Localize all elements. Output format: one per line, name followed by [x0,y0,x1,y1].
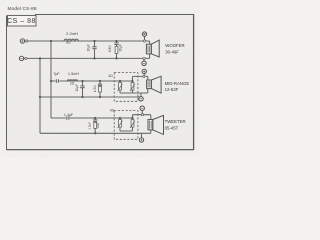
svg-text:CS – 88: CS – 88 [7,18,36,25]
svg-text:TWEETER: TWEETER [165,119,186,124]
svg-text:10Ω: 10Ω [96,122,100,128]
svg-text:2Ω: 2Ω [70,81,75,85]
svg-text:WOOFER: WOOFER [165,43,184,48]
svg-text:4Ω: 4Ω [110,109,115,113]
svg-text:7µF: 7µF [53,72,60,76]
svg-text:4Ω: 4Ω [108,74,113,78]
svg-text:1.5Ω: 1.5Ω [93,85,97,92]
svg-text:10µF: 10µF [75,84,79,91]
svg-text:6.8Ω: 6.8Ω [108,45,112,52]
svg-text:12-63F: 12-63F [165,87,179,92]
svg-text:8Ω: 8Ω [66,41,71,45]
svg-text:05-45T: 05-45T [165,125,179,130]
svg-text:Model CS-88: Model CS-88 [8,6,37,12]
svg-text:1.5mH: 1.5mH [68,72,79,76]
svg-text:MID-RANGE: MID-RANGE [165,81,190,86]
svg-text:1.5µF: 1.5µF [88,122,92,130]
svg-text:30µF: 30µF [119,44,123,51]
svg-text:1.4µF: 1.4µF [64,113,74,117]
svg-text:10µF: 10µF [86,44,90,51]
svg-text:2.2mH: 2.2mH [66,31,78,36]
svg-text:30-46F: 30-46F [165,49,179,54]
